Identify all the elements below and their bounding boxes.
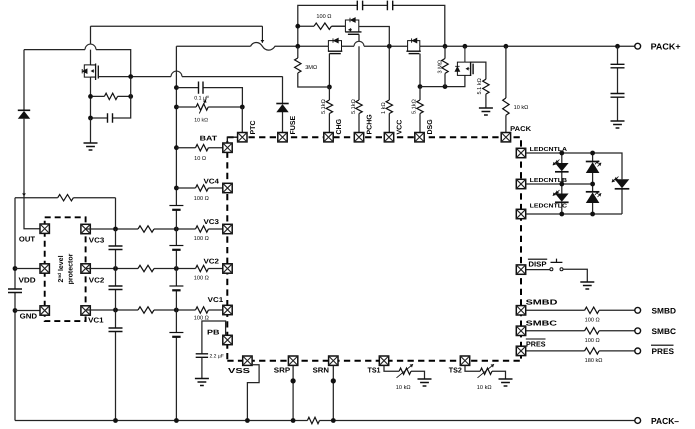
svg-text:GND: GND [20,312,37,321]
testpoint SRN [331,378,336,383]
ground TS2 [499,379,513,386]
wire Q3 gate down [419,54,421,87]
node battery top row2 [174,105,179,110]
IC U1 dashed outline [227,137,521,361]
node rail x464.9 [463,44,468,49]
ground below Q5 [90,118,92,143]
svg-text:PB: PB [207,330,220,337]
svg-text:3 MΩ: 3 MΩ [438,60,444,74]
svg-text:1 kΩ: 1 kΩ [380,102,387,114]
wire Q5 gate line y76.6 with hop over battery column [98,76,282,78]
resistor R13 100ohm SMBC [585,328,600,334]
wire Q1 drain to rail [359,27,390,47]
transistor Q4 (PACK P-FET) [455,46,473,76]
svg-text:10 kΩ: 10 kΩ [514,104,529,111]
terminal PACK- [635,418,641,424]
resistor R21 (Q5 gate-source) [91,95,131,97]
node rail x505.9 [504,44,509,49]
svg-text:PRES: PRES [526,339,546,348]
wire SRN down [332,365,334,420]
svg-text:VCC: VCC [397,120,404,135]
wire vertical x90.5 into Q5 [90,26,92,65]
resistor R5 3Mohm right [444,46,446,86]
node C col2 [590,212,595,217]
node ladder VC2 [113,266,118,271]
node C12 left [88,116,93,121]
thermistor RT2 10k [480,368,492,374]
wire C4/C5 column [617,46,619,121]
ground C11 [195,379,209,386]
IC pin VSS [243,356,252,365]
resistor R22 row y197.7 [15,197,116,199]
battery cell BT1 [169,205,183,207]
wire PRES row [526,350,635,352]
node A col1 [559,151,564,156]
svg-text:VC2: VC2 [89,275,105,284]
svg-text:OUT: OUT [19,235,36,244]
IC pin BAT [223,143,232,152]
LED D5 [586,191,600,193]
wire TS2 network [465,365,506,379]
svg-text:3MΩ: 3MΩ [305,65,317,71]
capacitor C10 [109,328,123,332]
capacitor C1 0.1uF [199,82,204,94]
wire SMBC row [526,330,635,332]
wire VC2 row [86,268,223,270]
svg-text:100 Ω: 100 Ω [585,318,600,324]
IC corner BAT-PTC [227,137,237,143]
wire battery stack column [175,46,177,420]
IC pin PB [223,335,232,344]
transistor Q2 (CHG FET) [328,38,342,53]
wire far-left vertical [23,50,25,198]
svg-text:5.1kΩ: 5.1kΩ [320,99,327,114]
wire VC4 row [176,187,222,189]
svg-text:100 Ω: 100 Ω [316,14,331,20]
resistor 100ohm VC2 [196,265,209,271]
wire VSS jog [247,365,259,421]
svg-text:10 kΩ: 10 kΩ [194,117,208,123]
resistor 100ohm VC4 [196,185,209,191]
diode D1 FUSE [276,103,288,105]
terminal PACK+ [635,43,641,49]
IC pin DISP [516,265,525,274]
svg-text:5.1kΩ: 5.1kΩ [411,99,418,114]
wire LED column1 [561,153,563,214]
wire LED column2 [592,153,594,214]
LED D3 [586,161,600,163]
IC pin TS2 [460,356,469,365]
testpoint SRP [291,378,296,383]
node battery VC1 [174,308,179,313]
wire DISP to switch [526,269,550,271]
node R21 right [128,94,133,99]
resistor R12 100ohm SMBD [585,307,600,313]
svg-text:protector: protector [68,253,75,284]
svg-text:SMBD: SMBD [652,307,677,316]
svg-text:10 Ω: 10 Ω [194,156,206,162]
IC pin VC4 [223,183,232,192]
LED D2 [555,163,569,171]
svg-text:BAT: BAT [200,136,218,143]
svg-text:VC1: VC1 [208,297,224,304]
svg-text:5.1kΩ: 5.1kΩ [350,99,357,114]
svg-text:SMBC: SMBC [652,327,677,336]
wire row y107 pot [176,106,242,108]
resistor VC2 filter [138,265,154,271]
svg-text:VC1: VC1 [88,315,104,324]
LED D4 [555,194,569,202]
wire SMBD row [526,309,635,311]
node rail SRN [331,418,336,423]
node battery BAT row [174,145,179,150]
potentiometer R2 10k [196,104,208,110]
wire LEDCNTLB row [526,183,593,185]
node B col2 [590,182,595,187]
svg-text:DISP: DISP [528,260,546,269]
capacitor C3 (top rail) [387,1,392,11]
capacitor C2 (top rail) [357,1,362,11]
wire Q5 source column down [90,77,92,118]
wire SRP down [292,365,294,420]
svg-text:VC3: VC3 [204,219,220,226]
node battery VC2 [174,266,179,271]
IC pin LEDCNTLB [516,179,525,188]
wire Q1 source left [332,25,346,27]
wire Q1 gate down to PCHG [358,34,360,100]
battery cell BT4 [169,332,183,334]
wire S-hop entry [251,43,329,51]
node GND row [13,308,18,313]
U2 pin VDD [40,264,49,273]
resistor R3 100ohm [314,23,332,29]
U2 pin GND [40,306,49,315]
ground S1 [580,282,594,289]
svg-text:PACK: PACK [510,126,531,133]
IC pin SMBC [516,326,525,335]
wire C11 to ground [201,357,203,378]
resistor R4 3Mohm left [298,46,330,87]
wire VC1 row [86,309,223,311]
switch S1 pushbutton [550,259,563,271]
wire top-left L_top [91,25,263,27]
wire switch to ground [563,269,587,282]
node pot right [240,105,245,110]
IC pin PCHG [354,133,363,142]
node VDD row [13,266,18,271]
resistor 100ohm VC3 [196,226,209,232]
node Q2 gate/3M [327,85,332,90]
node A col2 [590,151,595,156]
wire x15 column VDD/GND [14,198,16,421]
IC pin SRP [288,356,297,365]
U2 pin OUT [40,224,49,233]
IC pin LEDCNTLC [516,209,525,218]
wire LEDCNTLC row [526,213,622,215]
terminal PRES [635,348,641,354]
node rail x617.5 [615,44,620,49]
ground TS1 [418,379,432,386]
ground R10 [479,108,493,115]
resistor R15 sense [307,417,319,423]
node ladder VC1 [113,308,118,313]
svg-text:100 Ω: 100 Ω [194,196,209,202]
svg-text:TS1: TS1 [368,366,381,375]
svg-text:100 Ω: 100 Ω [194,276,209,282]
IC pin PTC [238,133,247,142]
wire PB to C11 [202,321,226,354]
node rail x176.4 [174,418,179,423]
node R21 left [88,94,93,99]
battery cell BT2 [169,245,183,247]
svg-text:SMBD: SMBD [526,298,558,307]
resistor R8 1k VCC [388,46,390,132]
wire y86.6 row [420,75,465,86]
IC pin LEDCNTLA [516,148,525,157]
thermistor RT1 10k [399,368,411,374]
IC pin VC3 [223,224,232,233]
IC pin VC2 [223,264,232,273]
svg-text:TS2: TS2 [449,366,462,375]
resistor R11 10k PACK [505,46,507,132]
node rail x297.8 [295,44,300,49]
U2 pin VC2 [81,264,90,273]
svg-text:2.2 µF: 2.2 µF [210,354,224,360]
resistor VC1 filter [138,307,154,313]
svg-text:PTC: PTC [250,121,257,135]
svg-text:PRES: PRES [652,347,675,356]
node battery top row1 [174,85,179,90]
IC pin DSG [415,133,424,142]
node rail x445 [443,44,448,49]
svg-text:SRP: SRP [274,366,291,375]
IC pin PACK [501,133,510,142]
wire Q2 gate down [328,54,330,87]
wire BAT row [176,147,222,149]
svg-text:PACK+: PACK+ [651,42,681,52]
node rail x115.5 [113,418,118,423]
wire GND row [15,310,40,312]
node B col1 [559,182,564,187]
wire L1 with hop over x90.5 [24,50,131,77]
svg-text:5.1 kΩ: 5.1 kΩ [476,78,483,94]
wire row y87.6 [176,88,242,107]
terminal SMBC [635,328,641,334]
node 3M right bottom [443,84,448,89]
battery cell BT3 [169,285,183,287]
svg-text:100 Ω: 100 Ω [194,236,209,242]
IC pin PRES [516,346,525,355]
wire LEDCNTLA row [526,153,622,160]
U2 pin VC1 [81,306,90,315]
svg-text:10 kΩ: 10 kΩ [396,384,411,391]
resistor R7 5.1k PCHG [356,100,362,114]
node R3 left [295,24,300,29]
wire rail mid segments [342,45,635,47]
svg-text:VSS: VSS [228,366,250,375]
resistor R14 180k PRES [585,348,600,354]
wire LED column3 [621,160,623,214]
wire x130.7 column [113,77,131,118]
svg-text:VC2: VC2 [204,259,220,266]
svg-text:FUSE: FUSE [290,116,297,135]
svg-text:VC4: VC4 [204,178,220,185]
terminal SMBD [635,307,641,313]
resistor VC3 filter [138,226,154,232]
node battery VC4 row [174,186,179,191]
svg-text:PACK–: PACK– [651,416,679,426]
wire vertical from L_top with arrowhead [261,26,263,43]
svg-text:180 kΩ: 180 kΩ [585,357,603,364]
IC pin SRN [329,356,338,365]
wire ladder top x115.5 [115,198,117,229]
IC pin TS1 [379,356,388,365]
wire TS1 network [384,365,425,379]
wire Q4 drain to R10 [471,62,486,79]
svg-text:0.1 µF: 0.1 µF [194,95,209,101]
node battery VC3 [174,227,179,232]
node Q3 gate [418,84,423,89]
junction arrow into resistor row [23,192,25,197]
IC pin CHG [324,133,333,142]
capacitor C11 2.2uF [196,354,208,358]
resistor 100ohm VC1 [196,307,209,313]
wire FUSE column [282,76,284,132]
resistor R10 5.1k [483,79,489,94]
node Q5 source junction [128,74,133,79]
capacitor C14 on x15 [8,289,22,293]
IC pin FUSE [278,133,287,142]
wire 100ohm row y26.2 [298,25,346,27]
svg-text:100 Ω: 100 Ω [585,338,600,344]
svg-text:PCHG: PCHG [367,114,374,135]
svg-text:CHG: CHG [336,118,343,134]
U2 pin VC3 [81,224,90,233]
capacitor C5 [611,94,625,98]
transistor Q5 P-FET top-left [82,64,98,81]
wire PTC column [241,107,243,132]
wire VDD row [15,268,40,270]
svg-text:VC3: VC3 [89,235,105,244]
capacitor C8 [109,246,123,250]
transistor Q3 (DSG FET) [406,38,420,53]
svg-text:SRN: SRN [313,366,329,375]
resistor R1 10ohm BAT [196,145,209,151]
transistor Q1 (PCHG P-FET) [345,18,361,35]
capacitor ladder column x115.5 [115,229,117,421]
node C col1 [559,212,564,217]
capacitor C12 [91,117,108,119]
svg-text:SMBC: SMBC [526,318,557,327]
capacitor C4 [611,64,625,68]
IC pin SMBD [516,306,525,315]
LED D6r column3 [615,179,630,188]
wire VC3 row [86,228,223,230]
ground C5 [611,121,625,128]
wire top rail y5.4 [298,5,445,46]
wire bottom rail [15,420,635,422]
IC pin VC1 [223,305,232,314]
node ladder VC3 [113,227,118,232]
svg-text:DSG: DSG [427,119,434,135]
svg-text:VDD: VDD [19,276,36,285]
node rail SRP [291,418,296,423]
resistor R9 5.1k DSG [419,87,421,133]
resistor R6 5.1k CHG [328,87,330,132]
wire main rail y46.3 [176,45,250,47]
svg-text:10 kΩ: 10 kΩ [477,384,492,391]
node rail VSS [245,418,250,423]
IC pin VCC [384,133,393,142]
2nd level protector U2 box [45,217,86,321]
wire OUT row [24,198,40,229]
node rail x389.3 [387,44,392,49]
capacitor C9 [109,286,123,290]
diode D6 far-left [18,109,30,111]
